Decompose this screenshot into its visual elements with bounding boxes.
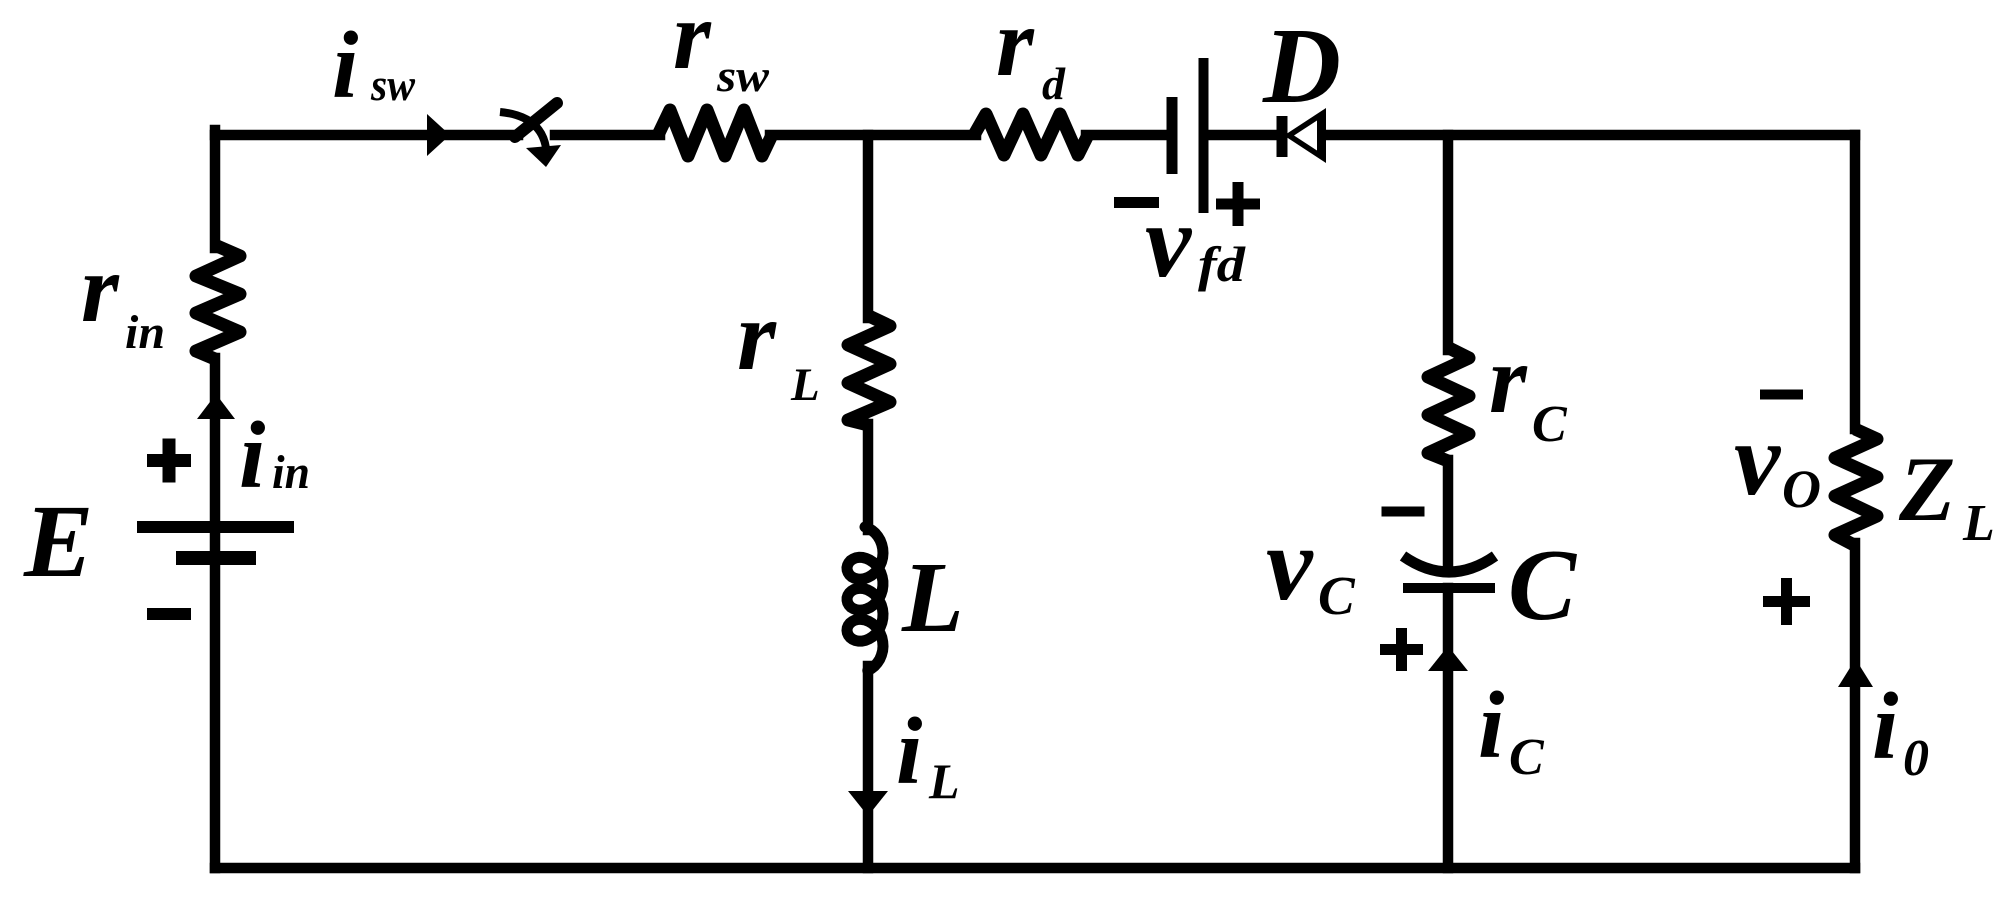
svg-text:C: C bbox=[1509, 729, 1545, 786]
svg-text:Z: Z bbox=[1898, 438, 1955, 540]
wire top segment diode D to top-right corner bbox=[1324, 130, 1855, 141]
wire left vertical (top corner down to r_in) bbox=[210, 130, 221, 248]
current arrow i_0 bbox=[1838, 659, 1873, 687]
wire top segment r_sw to r_d (through L-branch node) bbox=[770, 130, 976, 141]
resistor r_sw bbox=[658, 110, 772, 156]
svg-text:v: v bbox=[1266, 505, 1314, 622]
battery E positive (long) plate bbox=[137, 521, 294, 533]
wire C branch vertical (top wire to r_C) bbox=[1443, 135, 1454, 350]
capacitor C curved plate bbox=[1403, 556, 1495, 572]
wire top-left horizontal segment (E branch to switch) bbox=[215, 130, 518, 141]
wire C branch vertical (r_C to capacitor C) bbox=[1443, 460, 1454, 570]
wire L branch vertical (r_L to inductor L) bbox=[863, 424, 874, 530]
svg-text:i: i bbox=[896, 698, 922, 804]
svg-text:i: i bbox=[332, 12, 358, 118]
svg-text:i: i bbox=[239, 402, 265, 508]
current arrow i_sw on top wire bbox=[427, 114, 450, 156]
label minus of v_C bbox=[1382, 507, 1425, 517]
svg-text:v: v bbox=[1734, 402, 1782, 517]
battery v_fd positive (long) plate bbox=[1199, 58, 1209, 213]
svg-text:0: 0 bbox=[1903, 730, 1929, 787]
label plus of v_C bbox=[1380, 644, 1423, 655]
label plus of v_O bbox=[1763, 596, 1810, 607]
label plus of E bbox=[147, 454, 191, 467]
svg-text:i: i bbox=[1478, 672, 1504, 778]
label minus of v_fd bbox=[1114, 197, 1159, 208]
wire top segment r_d to v_fd battery bbox=[1086, 130, 1167, 141]
battery v_fd negative (short) plate bbox=[1167, 97, 1178, 174]
svg-text:in: in bbox=[272, 446, 310, 499]
svg-text:r: r bbox=[737, 280, 777, 391]
battery E negative (short) plate bbox=[176, 551, 256, 565]
wire C branch vertical (capacitor C to bottom rail) bbox=[1443, 588, 1454, 868]
diode D triangle (anode, pointing left) bbox=[1284, 108, 1326, 163]
label minus of E bbox=[147, 608, 191, 620]
svg-text:sw: sw bbox=[370, 60, 416, 110]
resistor r_L bbox=[848, 316, 890, 425]
capacitor C straight plate bbox=[1403, 583, 1495, 593]
svg-text:D: D bbox=[1262, 7, 1341, 126]
inductor L coil bbox=[847, 527, 883, 671]
svg-text:L: L bbox=[790, 359, 820, 411]
svg-text:r: r bbox=[81, 235, 120, 342]
wire right vertical (top-right corner to Z_L) bbox=[1850, 135, 1861, 429]
wire top segment v_fd battery to diode D bbox=[1208, 130, 1278, 141]
svg-text:i: i bbox=[1872, 673, 1898, 779]
svg-text:d: d bbox=[1042, 58, 1066, 109]
switch SW closing-motion arc bbox=[500, 112, 546, 148]
svg-text:C: C bbox=[1508, 529, 1577, 642]
label plus of v_fd bbox=[1216, 199, 1260, 210]
wire left vertical (r_in through battery E to bottom rail) bbox=[210, 358, 221, 868]
switch SW closing-motion arrowhead bbox=[526, 145, 561, 167]
resistor r_d bbox=[974, 114, 1088, 155]
svg-text:r: r bbox=[673, 0, 712, 89]
wire L branch vertical (inductor L to bottom rail) bbox=[863, 666, 874, 868]
wire right vertical (Z_L to bottom-right corner) bbox=[1850, 543, 1861, 868]
svg-text:O: O bbox=[1782, 459, 1821, 519]
current arrow i_in bbox=[197, 394, 235, 419]
svg-text:L: L bbox=[1962, 495, 1995, 552]
svg-text:in: in bbox=[125, 306, 165, 359]
svg-text:C: C bbox=[1318, 565, 1356, 626]
resistor r_in bbox=[196, 246, 240, 359]
wire bottom horizontal rail bbox=[215, 863, 1855, 874]
svg-text:v: v bbox=[1145, 184, 1193, 299]
switch SW blade bbox=[515, 103, 557, 137]
svg-text:L: L bbox=[928, 753, 960, 809]
resistor Z_L bbox=[1835, 429, 1877, 545]
svg-text:C: C bbox=[1532, 396, 1568, 453]
resistor r_C bbox=[1428, 348, 1469, 461]
current arrow i_L bbox=[848, 791, 888, 816]
svg-text:sw: sw bbox=[716, 50, 769, 101]
svg-text:r: r bbox=[996, 0, 1035, 96]
svg-text:L: L bbox=[901, 541, 964, 653]
current arrow i_C bbox=[1428, 646, 1468, 671]
wire L branch vertical (top node to r_L) bbox=[863, 135, 874, 318]
svg-text:E: E bbox=[23, 484, 93, 599]
svg-text:r: r bbox=[1489, 326, 1528, 433]
svg-text:fd: fd bbox=[1198, 236, 1246, 292]
label minus of v_O bbox=[1760, 390, 1803, 400]
wire top segment switch to r_sw bbox=[555, 130, 660, 141]
diode D cathode bar bbox=[1277, 116, 1288, 157]
